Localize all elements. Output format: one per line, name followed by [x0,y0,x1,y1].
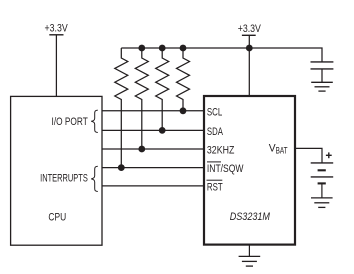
svg-text:INT/SQW: INT/SQW [207,163,244,175]
svg-text:INTERRUPTS: INTERRUPTS [40,171,88,184]
svg-text:32KHZ: 32KHZ [207,145,234,157]
svg-text:SCL: SCL [207,106,222,119]
svg-text:+3.3V: +3.3V [238,23,261,35]
svg-text:CPU: CPU [48,211,66,223]
svg-text:I/O PORT: I/O PORT [52,116,88,128]
svg-text:BAT: BAT [276,146,288,156]
svg-text:RST: RST [207,181,223,194]
svg-text:DS3231M: DS3231M [230,211,271,223]
svg-text:SDA: SDA [207,126,224,139]
svg-text:+3.3V: +3.3V [45,22,68,34]
